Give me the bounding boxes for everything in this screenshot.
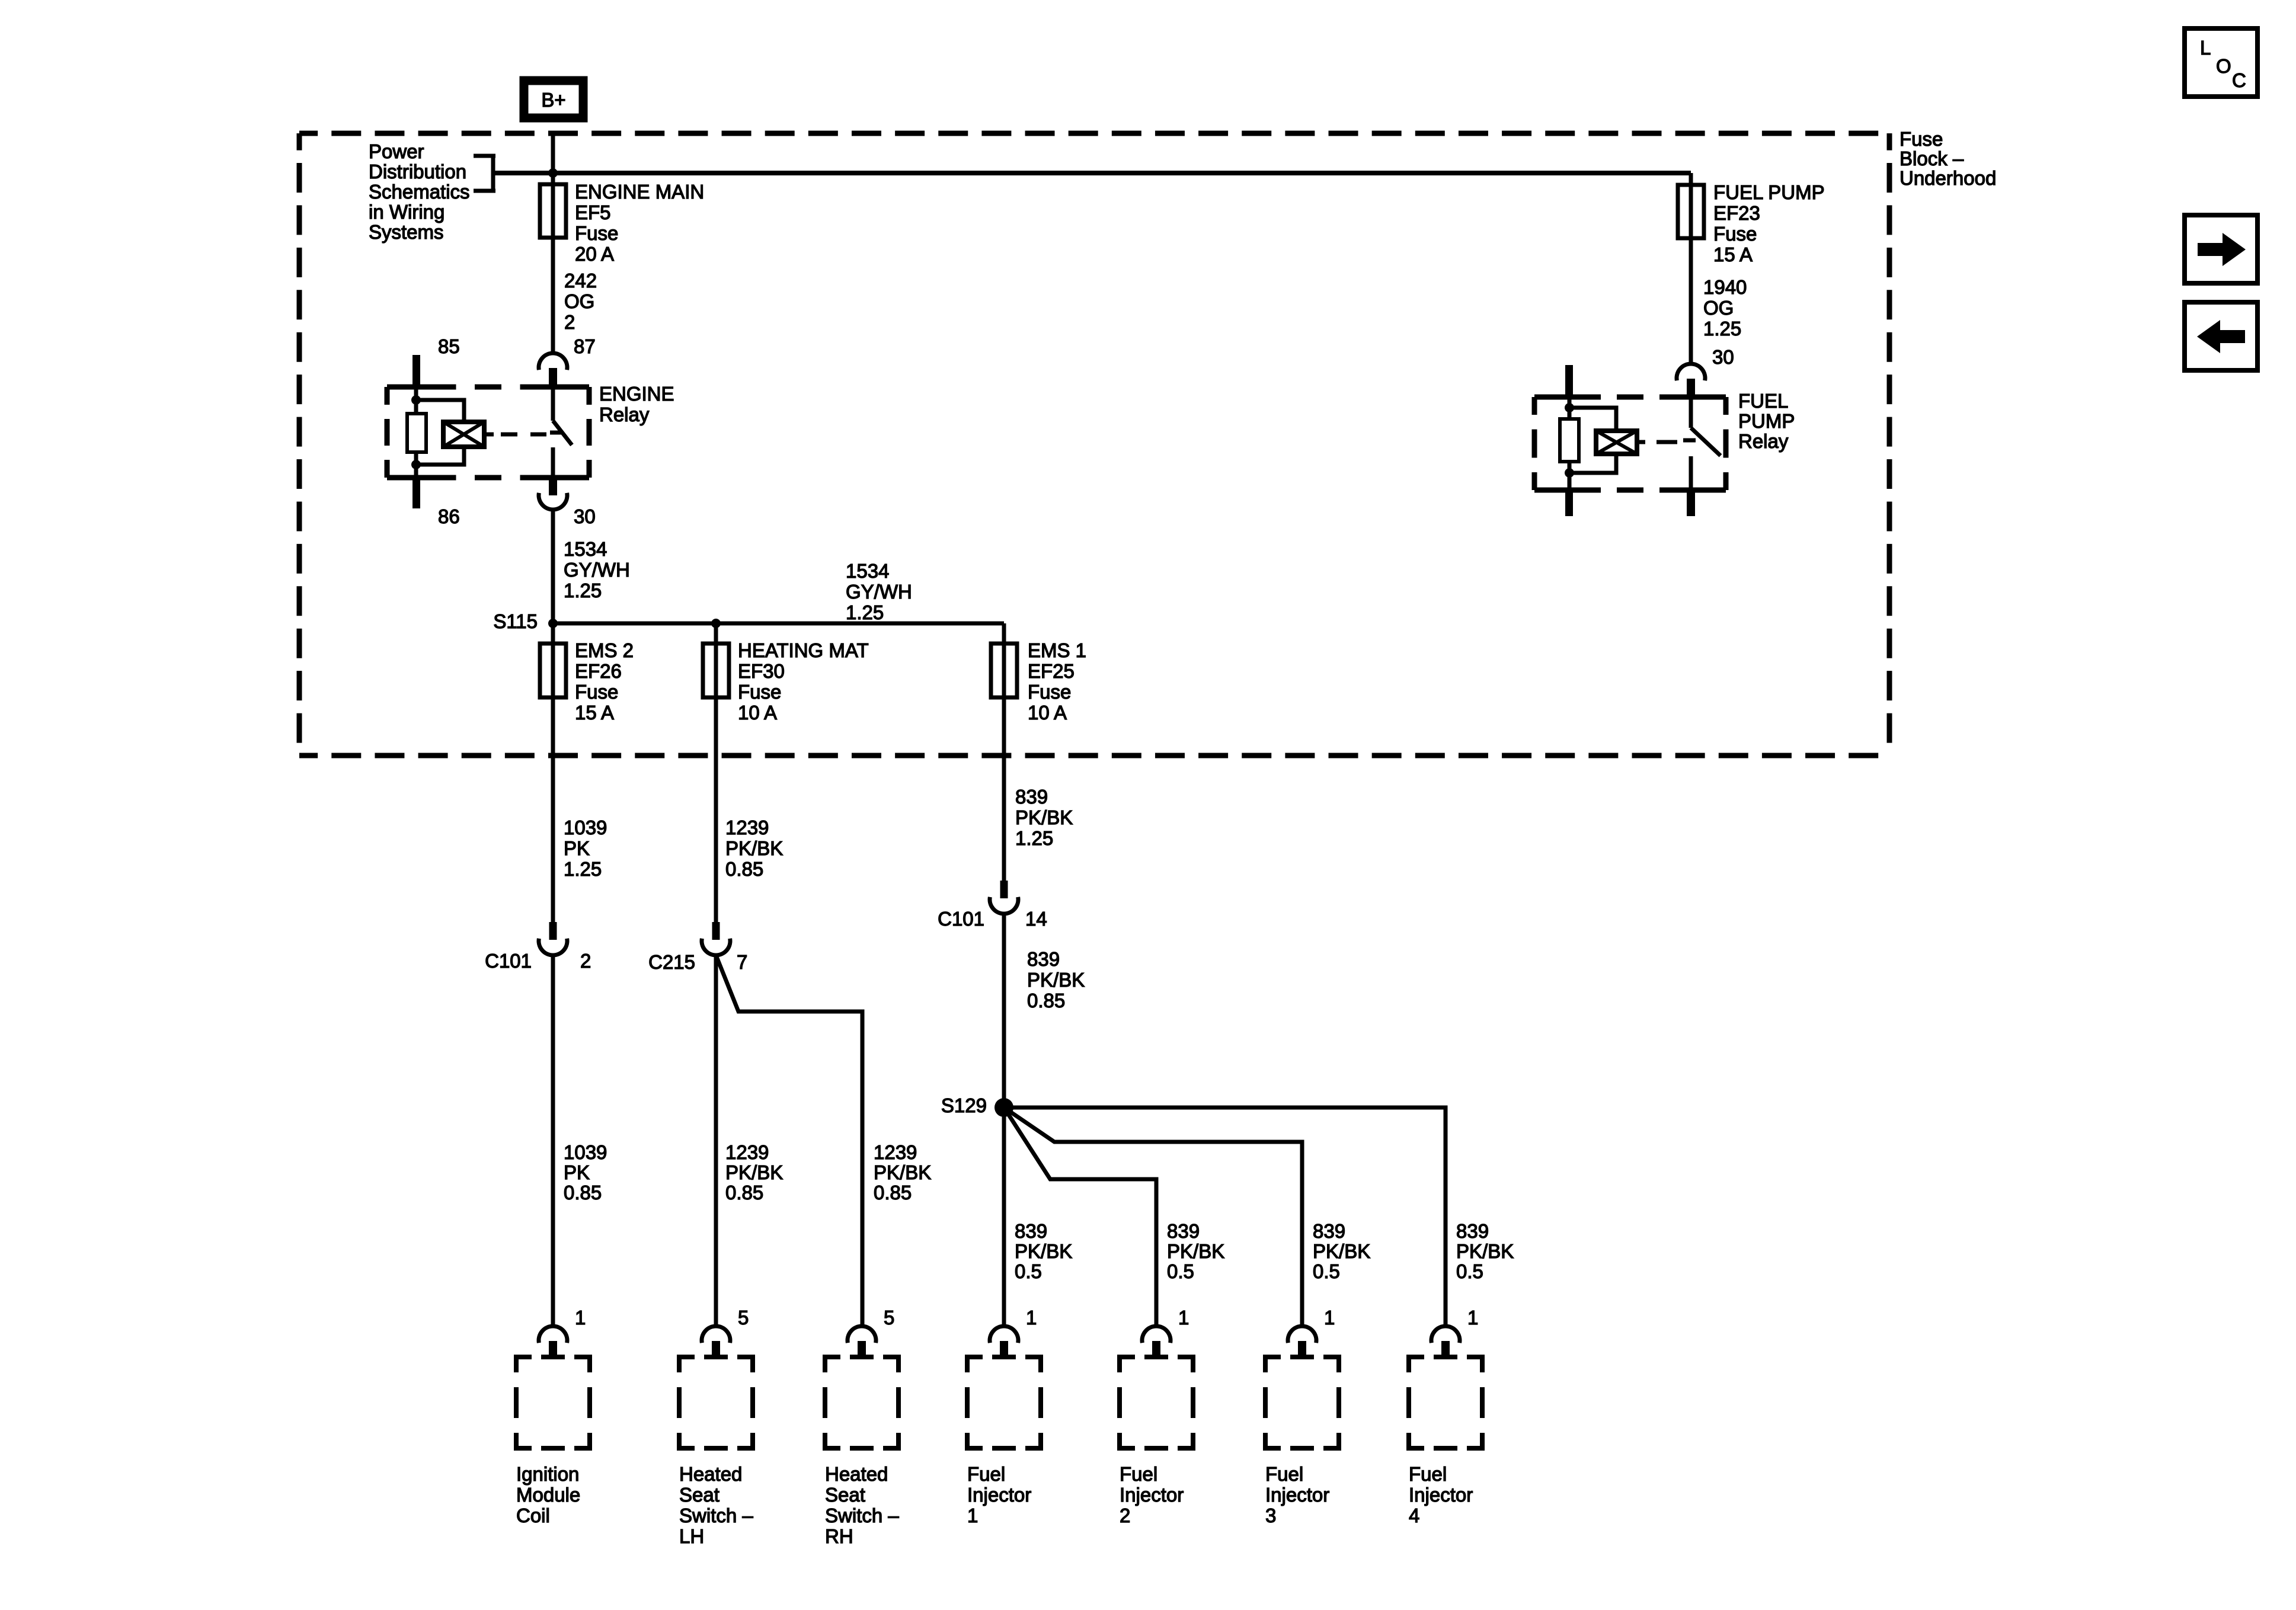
svg-text:10 A: 10 A [1028,702,1067,724]
svg-text:1: 1 [1324,1307,1335,1329]
svg-text:15 A: 15 A [575,702,614,724]
svg-text:1: 1 [575,1307,586,1329]
svg-text:0.85: 0.85 [874,1182,912,1204]
svg-text:PK/BK: PK/BK [1027,969,1085,991]
svg-text:839: 839 [1313,1220,1345,1242]
connector C215 pin 7 [648,922,747,973]
wire 242 OG 2 label [564,270,597,333]
connector terminal engine relay pin 30 [539,478,567,510]
wire label 1534 GY/WH 1.25 left [564,538,630,601]
fuel pump relay switch [1683,397,1721,490]
label FUEL PUMP Relay [1738,390,1795,452]
connector C101 pin 14 [938,881,1047,930]
svg-text:0.85: 0.85 [725,858,763,880]
svg-text:3: 3 [1265,1505,1276,1526]
svg-text:PK/BK: PK/BK [725,837,783,859]
engine relay coil branch wires [416,400,464,465]
svg-text:Injector: Injector [1265,1484,1329,1506]
svg-text:B+: B+ [541,89,565,111]
svg-text:OG: OG [1703,297,1734,319]
svg-text:C101: C101 [485,950,532,972]
wire label 839 PK/BK 0.85 [1027,948,1085,1012]
svg-text:Relay: Relay [599,404,650,425]
svg-text:5: 5 [738,1307,749,1329]
fuse EF30 HEATING MAT 10 A [703,639,869,724]
svg-text:Switch –: Switch – [679,1505,753,1526]
svg-text:EMS 2: EMS 2 [575,639,634,661]
svg-text:839: 839 [1015,1220,1047,1242]
svg-text:PUMP: PUMP [1738,410,1795,432]
fuse EF5 ENGINE MAIN 20 A [540,181,704,265]
svg-text:LH: LH [679,1525,704,1547]
fuel pump relay pin stub bottom right [1687,490,1695,516]
svg-text:PK/BK: PK/BK [725,1161,783,1183]
svg-text:O: O [2216,55,2231,77]
wire labels 1239 PK/BK 0.85 col2 [725,1141,783,1204]
svg-text:Heated: Heated [825,1463,888,1485]
fuse EF25 EMS 1 10 A [991,639,1086,724]
svg-text:1.25: 1.25 [564,580,602,601]
wire col EMS1 down [1002,623,1006,882]
svg-text:Fuel: Fuel [1265,1463,1303,1485]
fuse block underhood dashed border [299,133,1889,756]
engine relay wire below resistor [411,452,421,478]
svg-text:30: 30 [574,505,596,527]
wire labels 839 PK/BK 0.5 injectors [1015,1220,1514,1282]
svg-text:Systems: Systems [369,221,444,243]
svg-text:in Wiring: in Wiring [369,201,445,223]
engine relay pin 86 stub [412,478,420,508]
svg-text:1.25: 1.25 [1015,827,1053,849]
svg-text:0.85: 0.85 [1027,990,1065,1012]
svg-text:PK/BK: PK/BK [1015,806,1073,828]
svg-text:0.5: 0.5 [1313,1260,1340,1282]
svg-text:Seat: Seat [825,1484,865,1506]
svg-text:Block –: Block – [1900,148,1964,169]
connector terminal fuel pump relay pin 30 [1677,364,1705,396]
fuel pump relay wire below resistor [1565,462,1574,490]
svg-text:EF30: EF30 [738,660,785,682]
svg-text:Ignition: Ignition [516,1463,579,1485]
wire label 839 PK/BK 1.25 [1015,786,1073,849]
svg-text:GY/WH: GY/WH [564,559,630,581]
svg-text:Heated: Heated [679,1463,742,1485]
svg-text:HEATING MAT: HEATING MAT [738,639,869,661]
svg-text:1534: 1534 [564,538,607,560]
svg-text:ENGINE: ENGINE [599,383,674,405]
svg-text:1.25: 1.25 [1703,318,1741,340]
svg-text:EF5: EF5 [575,201,611,223]
component box heated seat switch RH [825,1357,899,1547]
svg-text:10 A: 10 A [738,702,777,724]
svg-text:Fuse: Fuse [738,681,781,703]
svg-text:FUEL PUMP: FUEL PUMP [1713,181,1825,203]
component box ignition module coil [516,1357,590,1526]
svg-text:1039: 1039 [564,1141,607,1163]
svg-text:FUEL: FUEL [1738,390,1788,412]
svg-text:PK/BK: PK/BK [874,1161,931,1183]
svg-text:RH: RH [825,1525,853,1547]
svg-text:Fuel: Fuel [1409,1463,1447,1485]
wire label 1534 GY/WH 1.25 right [846,560,912,623]
svg-text:15 A: 15 A [1713,244,1753,265]
svg-text:1.25: 1.25 [846,601,884,623]
svg-text:PK/BK: PK/BK [1015,1240,1072,1262]
svg-text:242: 242 [564,270,597,292]
svg-text:PK/BK: PK/BK [1167,1240,1224,1262]
wire label 1039 PK 1.25 [564,817,607,880]
nav arrow left box [2185,302,2257,370]
engine relay pin 85 stub [412,355,420,388]
wire labels 1239 PK/BK 0.85 col3 [874,1141,931,1204]
svg-text:Injector: Injector [1120,1484,1184,1506]
svg-text:Underhood: Underhood [1900,167,1996,189]
svg-text:1: 1 [1026,1307,1037,1329]
svg-text:87: 87 [574,335,596,357]
wire S115 bus to EMS fuses [553,619,1004,628]
svg-text:1239: 1239 [725,817,769,838]
connector C101 pin 2 [485,922,591,972]
svg-text:1: 1 [1178,1307,1189,1329]
wire S129 branch to fuel injector 2 [1004,1108,1156,1327]
connector terminal at engine relay pin 87 [539,353,567,386]
wire relay 30 to S115 (1534 GY/WH) [551,510,555,623]
engine relay coil circuit [411,388,421,415]
label Fuse Block - Underhood [1900,128,1996,189]
svg-text:Fuse: Fuse [575,681,618,703]
svg-text:PK/BK: PK/BK [1313,1240,1370,1262]
wire col EMS2 down [551,623,555,923]
splice S115 [493,610,558,632]
svg-text:Fuse: Fuse [575,222,618,244]
svg-text:Seat: Seat [679,1484,720,1506]
wire branch C215-7 to heated seat switch RH [716,955,862,1327]
engine relay coil-to-switch dashed link [501,433,546,437]
wire C101-14 to S129 [1002,914,1006,1108]
note Power Distribution Schematics in Wiring Systems [369,140,470,243]
fuse EF23 FUEL PUMP 15 A [1678,173,1825,365]
reference LOC box [2185,28,2257,97]
svg-text:86: 86 [438,505,460,527]
svg-text:S129: S129 [941,1094,987,1116]
svg-text:Injector: Injector [1409,1484,1473,1506]
fuse EF26 EMS 2 15 A [540,639,634,724]
wire col HEATING MAT down [714,623,718,923]
bottom connector terminals and pin labels [539,1307,1478,1357]
node: power bus junction [548,168,558,178]
svg-text:14: 14 [1025,908,1047,930]
component box heated seat switch LH [679,1357,753,1547]
engine relay coil (winding) [443,422,494,447]
svg-text:PK/BK: PK/BK [1456,1240,1514,1262]
svg-text:PK: PK [564,1161,590,1183]
component box fuel injector 3 [1265,1357,1339,1526]
svg-text:839: 839 [1456,1220,1489,1242]
svg-text:EF25: EF25 [1028,660,1075,682]
svg-text:4: 4 [1409,1505,1419,1526]
fuel pump relay coil (winding) [1596,431,1645,454]
svg-text:Relay: Relay [1738,430,1789,452]
wire power distribution bus [495,171,1691,175]
svg-text:2: 2 [580,950,591,972]
component box fuel injector 4 [1409,1357,1482,1526]
svg-text:Switch –: Switch – [825,1505,899,1526]
engine relay switch [550,387,572,478]
svg-text:85: 85 [438,335,460,357]
svg-text:Fuel: Fuel [1120,1463,1157,1485]
svg-text:7: 7 [737,951,747,973]
fuel pump relay pin stub top left [1565,365,1573,397]
svg-text:OG: OG [564,290,594,312]
wire labels 1039 PK 0.85 [564,1141,607,1204]
svg-text:0.85: 0.85 [725,1182,763,1204]
splice S129 [941,1094,1013,1117]
svg-text:Power: Power [369,140,424,162]
dash crossings engine relay edges [402,385,567,481]
bracket to Power Distribution Schematics note [474,156,495,191]
fuel pump relay coil branch wires [1569,408,1616,473]
dash crossings fuel pump relay edges [1556,395,1705,493]
wire label 1940 OG 1.25 [1703,276,1747,340]
svg-text:Fuse: Fuse [1028,681,1071,703]
svg-text:1039: 1039 [564,817,607,838]
svg-text:5: 5 [884,1307,894,1329]
svg-text:1: 1 [967,1505,978,1526]
engine relay resistor [407,414,426,452]
svg-text:ENGINE MAIN: ENGINE MAIN [575,181,704,203]
svg-text:0.85: 0.85 [564,1182,602,1204]
svg-text:L: L [2200,37,2211,59]
nav arrow right box [2185,215,2257,283]
svg-text:C101: C101 [938,908,984,930]
svg-text:Injector: Injector [967,1484,1031,1506]
fuel pump relay coil circuit top [1565,398,1574,420]
wire S129 to fuel injector 1 [1002,1108,1006,1327]
svg-text:S115: S115 [493,610,538,632]
component box fuel injector 2 [1120,1357,1193,1526]
wire C215-7 to heated seat switch LH [714,954,718,1327]
svg-text:Fuse: Fuse [1713,223,1757,245]
wire S129 branch to fuel injector 3 [1004,1108,1302,1327]
fuel pump relay resistor [1560,419,1579,462]
svg-text:30: 30 [1712,346,1734,368]
svg-text:20 A: 20 A [575,243,614,265]
svg-text:Distribution: Distribution [369,161,466,183]
wire S129 branch to fuel injector 4 [1004,1108,1446,1327]
wire B+ to ENGINE MAIN fuse and relay pin 87 [551,131,555,354]
svg-text:Fuel: Fuel [967,1463,1005,1485]
svg-text:2: 2 [564,311,575,333]
svg-text:1.25: 1.25 [564,858,602,880]
label ENGINE Relay [599,383,674,425]
svg-text:1: 1 [1467,1307,1478,1329]
svg-text:EF26: EF26 [575,660,622,682]
svg-text:EMS 1: EMS 1 [1028,639,1086,661]
svg-text:839: 839 [1167,1220,1200,1242]
svg-text:1239: 1239 [725,1141,769,1163]
wire C101-2 to ignition module coil [551,954,555,1327]
svg-text:Module: Module [516,1484,580,1506]
svg-text:GY/WH: GY/WH [846,581,912,603]
svg-text:Coil: Coil [516,1505,550,1526]
svg-text:Schematics: Schematics [369,181,470,203]
svg-text:1940: 1940 [1703,276,1747,298]
svg-text:839: 839 [1027,948,1060,970]
battery feed B+ box [524,81,583,118]
fuel pump relay coil-to-switch dashed link [1657,440,1677,444]
svg-text:C: C [2232,69,2246,91]
svg-text:2: 2 [1120,1505,1130,1526]
svg-text:EF23: EF23 [1713,202,1760,224]
fuel pump relay pin stub bottom left [1565,490,1573,516]
FUEL PUMP Relay dashed box [1534,397,1726,490]
svg-text:PK: PK [564,837,590,859]
component box fuel injector 1 [967,1357,1041,1526]
svg-text:C215: C215 [648,951,695,973]
svg-text:839: 839 [1015,786,1048,808]
svg-text:0.5: 0.5 [1167,1260,1194,1282]
ENGINE Relay dashed box [387,387,589,478]
svg-text:0.5: 0.5 [1015,1260,1042,1282]
svg-text:1534: 1534 [846,560,889,582]
svg-text:Fuse: Fuse [1900,128,1943,150]
svg-text:1239: 1239 [874,1141,917,1163]
wire label 1239 PK/BK 0.85 upper [725,817,783,880]
svg-text:0.5: 0.5 [1456,1260,1483,1282]
